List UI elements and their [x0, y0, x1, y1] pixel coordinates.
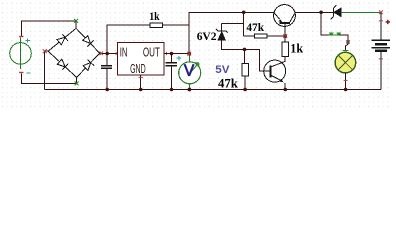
wire 1k branch riser	[107, 25, 150, 53]
diode D3 bottom-left arm	[57, 58, 69, 70]
wire lamp node to zener D5	[321, 11, 333, 13]
voltmeter lead bottom green	[189, 84, 191, 89]
node lamp branch junction	[319, 11, 323, 15]
node D junction	[243, 48, 247, 52]
terminal tick battery plus	[379, 20, 383, 22]
wire connector to lamp	[340, 35, 348, 50]
resistor R4 47k vertical	[242, 64, 249, 76]
terminal tick source -	[19, 72, 23, 74]
regulator U1 box	[117, 43, 164, 76]
svg-text:IN: IN	[120, 45, 128, 59]
terminal tick lamp bottom	[344, 79, 348, 81]
wire capacitor C2 leads	[171, 54, 173, 90]
wire 47k-v bottom lead	[244, 76, 246, 89]
connector pair green	[329, 33, 341, 35]
polarity mark + (source)	[26, 38, 30, 42]
svg-text:47k: 47k	[246, 22, 264, 34]
wire node D to Q2 base	[245, 49, 264, 71]
node Q2 emitter ground junction	[284, 88, 288, 92]
resistor R3 1k vertical	[282, 42, 289, 57]
wire capacitor C1 leads	[106, 54, 108, 90]
wire battery bottom lead	[380, 52, 382, 90]
polarity mark + (battery)	[386, 20, 390, 24]
node Q1 base junction	[283, 34, 287, 38]
terminal tick X battery top	[379, 10, 383, 14]
transistor Q1 PNP	[274, 5, 296, 35]
svg-text:GND: GND	[130, 62, 146, 76]
power supply V1	[10, 38, 32, 69]
green pin tick bridge top	[74, 19, 78, 23]
terminal tick battery bottom	[379, 58, 383, 60]
wire Q1 collector to lamp node	[295, 11, 321, 13]
wire zener D5 to battery (green)	[341, 11, 381, 13]
wire bridge plus to regulator IN	[100, 53, 118, 55]
terminal tick IN pin	[115, 52, 117, 55]
wire zener anode to node D	[222, 40, 245, 50]
terminal tick GND pin	[139, 76, 143, 78]
resistor R2 47k	[254, 34, 267, 38]
node 47k-v ground junction	[243, 88, 247, 92]
wire source bottom to bridge bottom	[21, 73, 76, 83]
wire OUT to riser	[164, 53, 189, 55]
ground rail	[45, 89, 381, 91]
node C2 ground junction	[170, 88, 174, 92]
battery B1	[372, 40, 391, 51]
resistor R1 1k	[150, 23, 162, 27]
svg-text:6V2: 6V2	[197, 31, 217, 43]
wire node D to 47k-v	[244, 49, 246, 63]
diode D2 top-right arm	[82, 35, 94, 47]
lamp L1	[335, 52, 356, 73]
wire source top to bridge top	[21, 21, 76, 37]
node output junction	[187, 52, 191, 56]
node B top rail junction	[242, 11, 246, 15]
green pin tick bridge bottom	[75, 82, 79, 86]
capacitor C2	[166, 63, 177, 66]
voltmeter lead top green	[188, 56, 190, 62]
wire lamp branch down	[321, 12, 330, 35]
terminal tick X bridge left	[43, 49, 47, 53]
terminal ticks lamp top	[346, 41, 350, 43]
polarity mark + (voltmeter)	[177, 56, 181, 60]
wire 47k left lead	[244, 35, 255, 37]
wire GND pin	[140, 75, 142, 89]
wire 47k right lead to Q1 base	[267, 35, 285, 37]
wire battery top lead	[380, 12, 382, 39]
terminal tick OUT pin	[166, 52, 168, 55]
wire 1k to riser	[162, 24, 189, 26]
wire output riser to top rail	[189, 12, 244, 53]
bridge rectifier frame	[48, 28, 100, 77]
diode D4 bottom-right arm	[82, 60, 94, 72]
terminal tick X Q1 base node	[283, 34, 287, 38]
capacitor C1	[101, 66, 112, 69]
wire bridge minus stub	[45, 51, 49, 89]
green pin tick lamp top	[343, 49, 349, 51]
terminal tick X bridge right	[100, 52, 104, 56]
zener diode D5	[331, 5, 341, 20]
wire Q2 emitter to ground rail	[284, 83, 286, 90]
node input junction	[105, 52, 109, 56]
svg-text:47k: 47k	[218, 77, 238, 91]
node lamp ground junction	[344, 88, 348, 92]
diode D1 top-left arm	[56, 34, 67, 46]
node C1 ground junction	[105, 88, 109, 92]
node C2 tap	[170, 52, 174, 56]
svg-text:1k: 1k	[290, 41, 303, 55]
wire top rail B to Q1 emitter	[244, 11, 274, 13]
wire node B column	[222, 12, 244, 36]
wire lamp bottom lead	[345, 73, 347, 90]
node GND ground junction	[139, 88, 143, 92]
svg-text:5V: 5V	[215, 64, 230, 76]
terminal tick source +	[19, 36, 23, 38]
svg-text:OUT: OUT	[143, 45, 160, 59]
polarity mark - (source)	[27, 72, 31, 74]
zener diode Z1 6V2	[216, 29, 228, 40]
svg-text:1k: 1k	[149, 9, 160, 23]
voltmeter M1	[179, 62, 201, 84]
wire 1k-v top lead	[284, 36, 286, 42]
transistor Q2 NPN	[264, 60, 286, 82]
terminal tick X voltmeter top	[187, 52, 191, 56]
wire 1k-v bottom to Q2 collector	[271, 57, 285, 67]
node voltmeter ground junction	[188, 88, 192, 92]
